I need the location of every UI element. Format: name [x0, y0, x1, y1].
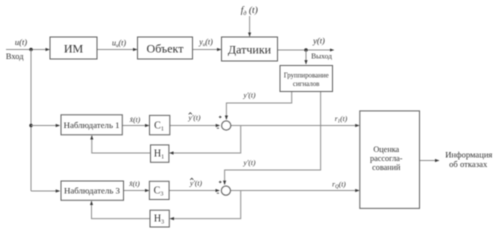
wire Object to Sensors: [193, 49, 221, 51]
svg-text:Информация: Информация: [445, 149, 492, 159]
wire estimator output: [420, 160, 439, 162]
svg-text:y'(t): y'(t): [187, 113, 201, 122]
block Estimator: [360, 111, 420, 208]
svg-text:y(t): y(t): [312, 36, 325, 46]
svg-text:об отказах: об отказах: [449, 159, 488, 169]
wire output y(t): [278, 49, 334, 51]
label y-hat-prime lower: [189, 178, 203, 187]
svg-text:uи(t): uи(t): [112, 39, 126, 50]
label y-hat upper: [187, 113, 201, 122]
svg-text:y'(t): y'(t): [189, 179, 203, 188]
svg-text:Наблюдатель 1: Наблюдатель 1: [64, 120, 120, 130]
wire grouping to summer 1: [226, 92, 291, 120]
block C3: [149, 181, 169, 199]
svg-text:fд (t): fд (t): [241, 5, 258, 17]
summer 2: [221, 186, 230, 195]
sign plus summer1: [219, 116, 222, 119]
svg-text:x̂(t): x̂(t): [128, 179, 140, 188]
svg-text:y'(t): y'(t): [242, 91, 256, 100]
svg-text:Вход: Вход: [6, 52, 24, 61]
wire input u(t): [6, 49, 49, 51]
wire C1 to summer 1: [170, 125, 220, 127]
sign minus summer1: [217, 127, 219, 129]
node bus junction to observer 1: [29, 124, 32, 127]
svg-text:сований: сований: [372, 163, 401, 172]
block H3: [150, 210, 169, 227]
wire H3 to observer3: [92, 201, 151, 218]
svg-text:Объект: Объект: [147, 42, 185, 56]
block C1: [150, 115, 170, 134]
svg-text:Выход: Выход: [311, 52, 332, 61]
block Observer 3: [61, 181, 124, 200]
block Sensors: [222, 37, 278, 61]
svg-text:Группирование: Группирование: [284, 72, 329, 79]
svg-text:u(t): u(t): [15, 37, 27, 47]
node input junction: [29, 48, 32, 51]
block H1: [151, 145, 169, 162]
svg-text:x̂(t): x̂(t): [129, 115, 141, 124]
sign minus summer2: [217, 192, 219, 194]
wire r1 tap to H1: [170, 126, 241, 154]
svg-text:ИМ: ИМ: [64, 42, 84, 56]
wire input bus vertical: [30, 50, 32, 192]
summer 1: [222, 121, 231, 130]
wire f fault input: [249, 16, 251, 36]
svg-text:Оценка: Оценка: [373, 145, 399, 154]
svg-text:Датчики: Датчики: [228, 43, 272, 57]
svg-text:rQ(t): rQ(t): [332, 179, 346, 190]
svg-text:сигналов: сигналов: [293, 81, 320, 88]
wire IM to Object: [97, 49, 137, 51]
block IM: [50, 37, 97, 59]
svg-text:yи(t): yи(t): [198, 38, 213, 49]
node output junction: [304, 48, 307, 51]
svg-text:r1(t): r1(t): [335, 114, 348, 125]
svg-text:Наблюдатель 3: Наблюдатель 3: [64, 186, 121, 196]
wire C3 to summer 2: [169, 190, 219, 192]
sign plus summer2: [219, 181, 222, 184]
block Observer 1: [61, 115, 122, 135]
wire observer1 to C1: [122, 125, 149, 127]
wire summer2 to estimator rq: [231, 190, 360, 192]
wire observer3 to C3: [124, 190, 149, 192]
wire bus to observer 1: [31, 125, 60, 127]
wire rq tap to H3: [170, 191, 241, 219]
wire bus to observer 3: [31, 190, 60, 192]
svg-text:рассогла-: рассогла-: [370, 154, 403, 163]
block Grouping of signals: [280, 66, 333, 92]
wire H1 to observer1: [92, 136, 151, 153]
svg-text:y'(t): y'(t): [242, 158, 256, 167]
wire summer1 to estimator r1: [231, 125, 359, 127]
block Object: [138, 37, 193, 59]
wire sensors to grouping: [305, 50, 307, 64]
wire grouping to summer 2: [225, 92, 321, 185]
